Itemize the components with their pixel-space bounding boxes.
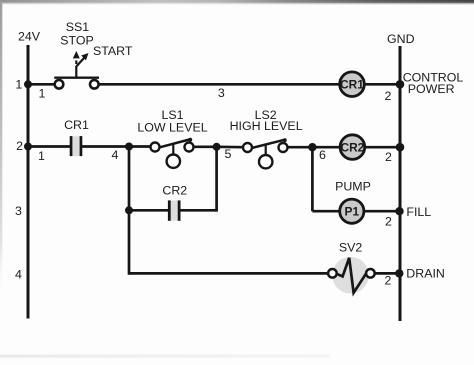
wire: node6 vertical branch down to pump rung	[311, 147, 314, 211]
node 5	[213, 143, 221, 151]
svg-text:SV2: SV2	[339, 240, 363, 254]
wire rung1: CR1 coil to right rail	[365, 83, 400, 86]
SS1 start arrow (diagonal)	[76, 58, 84, 67]
LS1 lever	[159, 139, 192, 148]
svg-text:START: START	[93, 44, 133, 58]
svg-text:CR1: CR1	[340, 78, 364, 92]
LS1 left contact circle	[151, 143, 160, 152]
svg-text:P1: P1	[345, 205, 360, 219]
wire rung1: SS1 to CR1 coil	[99, 83, 340, 86]
LS2 left contact circle	[243, 143, 252, 152]
node 6	[308, 143, 316, 151]
svg-text:2: 2	[16, 139, 23, 153]
wire rung2: CR1 contact to node4	[82, 145, 129, 148]
SS1 contact bar	[54, 76, 99, 78]
SS1 actuator stem	[75, 66, 77, 78]
svg-text:2: 2	[385, 89, 392, 103]
svg-text:5: 5	[225, 147, 232, 161]
SS1 stop arrow (dashed, up)	[75, 61, 77, 65]
motor coil P1 (pump)	[340, 199, 364, 223]
node CR2 branch	[125, 206, 133, 214]
wire rung2: CR2 coil to right rail	[365, 146, 400, 149]
wire: pump rung left segment	[312, 210, 339, 213]
LS2 actuator stem	[265, 144, 267, 155]
SV2 right terminal circle	[366, 269, 375, 278]
node rung1 right rail	[396, 80, 405, 89]
node 4	[125, 143, 133, 151]
node pump rung right rail	[395, 207, 403, 215]
wire rung2: LS1 to node5	[194, 145, 217, 148]
contact CR2 (N.O.) on branch	[168, 200, 181, 220]
svg-text:FILL: FILL	[406, 205, 431, 219]
LS2 right contact circle	[279, 143, 288, 152]
wire rung1: rail to SS1	[28, 83, 55, 86]
right power rail GND	[399, 46, 402, 321]
svg-text:1: 1	[38, 149, 45, 163]
svg-text:4: 4	[111, 148, 118, 162]
wire rung4: node4 branch to SV2	[129, 272, 329, 275]
svg-text:1: 1	[39, 86, 46, 100]
LS1 actuator stem	[172, 144, 174, 155]
svg-text:1: 1	[15, 78, 22, 92]
wire: P1 coil to right rail	[364, 210, 400, 213]
relay coil CR1	[340, 72, 365, 97]
svg-text:CR2: CR2	[341, 141, 365, 155]
svg-text:2: 2	[385, 215, 392, 229]
wire: CR2 branch left segment	[129, 209, 168, 212]
wire: node5 vertical branch to CR2 branch	[215, 147, 218, 212]
svg-text:2: 2	[384, 273, 391, 287]
wire rung2: rail to CR1 contact	[28, 145, 70, 148]
svg-text:POWER: POWER	[408, 82, 455, 96]
SV2 zigzag element	[337, 258, 367, 293]
svg-text:3: 3	[15, 204, 22, 218]
svg-text:STOP: STOP	[60, 34, 94, 48]
pushbutton SS1 (N.C. stop / N.O. start)	[54, 51, 99, 89]
limit switch LS1 (N.O.)	[151, 138, 194, 168]
svg-text:3: 3	[218, 86, 225, 100]
svg-text:4: 4	[15, 268, 22, 282]
wire: node4 vertical branch down to rung4	[128, 147, 131, 275]
LS2 lever	[251, 139, 285, 148]
left power rail 24V	[27, 45, 30, 319]
svg-text:DRAIN: DRAIN	[406, 266, 445, 280]
wire: CR2 branch right segment	[180, 209, 216, 212]
contact CR1 (N.O.) on rung2	[70, 136, 83, 156]
LS1 right contact circle	[185, 143, 194, 152]
svg-text:PUMP: PUMP	[335, 179, 371, 193]
svg-text:2: 2	[385, 150, 392, 164]
svg-text:CR2: CR2	[162, 184, 187, 198]
LS2 actuator roller	[259, 155, 272, 168]
wire rung2: node5 to LS2	[217, 145, 244, 148]
svg-text:HIGH LEVEL: HIGH LEVEL	[230, 119, 303, 133]
SS1 right terminal circle	[90, 80, 99, 89]
SV2 shading	[332, 257, 369, 294]
wire rung2: node6 to CR2 coil	[312, 146, 340, 149]
node rung2 left rail	[24, 143, 32, 151]
node rung1 left rail	[24, 80, 32, 88]
node rung4 right rail	[395, 269, 403, 277]
wire rung4: SV2 to right rail	[374, 272, 400, 275]
relay coil CR2	[340, 135, 365, 160]
SV2 left terminal circle	[328, 269, 337, 278]
limit switch LS2 (N.O.)	[243, 138, 288, 168]
svg-text:LOW LEVEL: LOW LEVEL	[137, 121, 207, 135]
svg-text:6: 6	[319, 148, 326, 162]
LS1 actuator roller	[167, 155, 180, 168]
wire rung2: node4 to LS1	[129, 145, 151, 148]
svg-text:SS1: SS1	[66, 20, 90, 34]
wire rung2: LS2 to node6	[288, 146, 313, 149]
svg-text:GND: GND	[387, 32, 415, 46]
solenoid valve SV2	[328, 257, 375, 294]
svg-text:CR1: CR1	[64, 118, 89, 132]
svg-text:24V: 24V	[18, 30, 41, 44]
node rung2 right rail	[396, 143, 405, 152]
SS1 left terminal circle	[55, 80, 64, 89]
